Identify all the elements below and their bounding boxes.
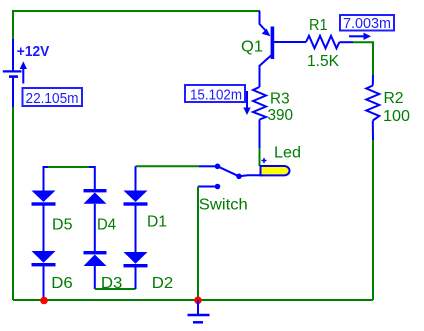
svg-text:R1: R1 (309, 17, 328, 34)
svg-text:Switch: Switch (199, 197, 248, 214)
wire D1 top to switch green (136, 165, 200, 167)
svg-text:R2: R2 (384, 90, 404, 107)
wire D5-D4 top link (48, 166, 91, 168)
wire right rail green lower (372, 140, 374, 300)
current arrow battery (20, 61, 27, 83)
wire left battery lead lower (12, 77, 14, 107)
wire switch to LED (239, 175, 262, 176)
current arrow R1 (349, 33, 371, 40)
svg-text:Q1: Q1 (241, 39, 263, 56)
wire right rail blue upper (372, 75, 374, 86)
wire left rail green upper (12, 10, 14, 39)
svg-text:D5: D5 (52, 217, 73, 234)
meter box 7.003m (340, 15, 394, 32)
svg-text:D2: D2 (152, 275, 174, 292)
resistor R2 (366, 86, 379, 121)
wire D2 stub down (135, 267, 137, 289)
wire D5 top stub (44, 167, 51, 191)
diode D4 (84, 189, 107, 204)
wire D1-D2 (135, 206, 137, 253)
svg-text:R3: R3 (270, 91, 290, 108)
svg-text:+12V: +12V (17, 43, 50, 60)
switch S1 (215, 164, 242, 190)
diode D3 (84, 251, 107, 266)
meter box 15.102m (185, 85, 245, 104)
wire D3-D2 bottom link (95, 288, 136, 290)
wire D3 stub down (94, 266, 96, 289)
svg-text:22.105m: 22.105m (26, 90, 79, 107)
wire Q1 base to R1 (274, 41, 306, 43)
wire left battery lead upper (12, 39, 14, 71)
battery V1 +12V (3, 71, 22, 76)
diode D6 (32, 251, 56, 266)
wire top rail (13, 10, 260, 12)
wire bottom rail (13, 299, 373, 301)
wire R1 to right rail green (353, 42, 373, 75)
svg-text:7.003m: 7.003m (343, 15, 391, 32)
wire R3 to LED blue (259, 120, 261, 149)
wire Q1 collector to R3 (259, 65, 261, 87)
junction dot D6 rail (40, 297, 48, 305)
svg-text:D6: D6 (51, 275, 73, 292)
svg-text:Led: Led (274, 145, 301, 162)
transistor Q1 (260, 21, 275, 66)
svg-text:100: 100 (383, 108, 410, 125)
wire D4-D3 (94, 204, 96, 251)
resistor R1 (306, 36, 340, 49)
wire switch contact down green (197, 187, 199, 301)
LED body (261, 166, 290, 175)
wire Q1 emitter drop (259, 11, 261, 22)
diode D5 (32, 191, 56, 206)
meter box 22.105m (23, 88, 83, 107)
label + polarity mark (262, 158, 267, 163)
wire D6 to rail (43, 266, 45, 300)
wire D4 top stub (89, 167, 95, 189)
svg-text:390: 390 (268, 107, 294, 124)
wire R3 to LED green (259, 148, 261, 166)
svg-text:D4: D4 (97, 217, 116, 234)
wire right rail blue lower (372, 121, 374, 141)
junction dot ground rail (194, 297, 202, 305)
diode D2 (124, 252, 148, 267)
wire switch contact (198, 186, 215, 188)
wire left rail green lower (12, 107, 14, 300)
svg-text:1.5K: 1.5K (307, 53, 340, 70)
ground symbol (188, 300, 210, 322)
resistor R3 (253, 87, 266, 120)
svg-text:15.102m: 15.102m (190, 87, 242, 104)
diode D1 (124, 191, 148, 206)
wire R1 to right rail blue (340, 41, 354, 43)
current arrow R3 (243, 91, 250, 115)
svg-text:D1: D1 (147, 214, 167, 231)
wire switch pole blue (199, 165, 215, 167)
wire D1 top stub (135, 166, 137, 190)
wire D5-D6 (43, 206, 45, 252)
